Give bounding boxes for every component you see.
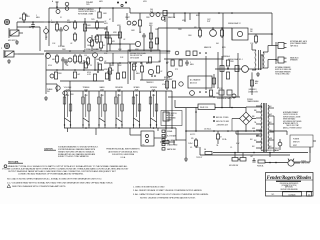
svg-text:.02: .02 (123, 39, 125, 41)
label smudges 5 (158, 61, 166, 86)
tube V12 (210, 30, 217, 37)
tube V11 (190, 91, 207, 96)
test data line2 (7, 178, 102, 181)
wire v x113b (112, 53, 114, 66)
vibrato box (188, 76, 212, 88)
svg-text:7025: 7025 (91, 19, 95, 21)
top dark marks (117, 2, 127, 7)
svg-text:2. ALL RESISTORS ARE 1/2 WATT: 2. ALL RESISTORS ARE 1/2 WATT UNLESS OTH… (133, 189, 202, 192)
title rev box (307, 192, 312, 197)
mid extra wires (83, 60, 109, 81)
small box mrB (209, 90, 212, 96)
wire x186 up (185, 108, 187, 131)
label 240 (150, 9, 153, 13)
svg-text:7025: 7025 (86, 4, 90, 6)
label test data (8, 161, 23, 164)
test data paragraph (2, 165, 129, 176)
wire mr h y97 (168, 96, 240, 98)
svg-text:1: 1 (36, 15, 37, 17)
svg-text:RED-YEL TO RED: RED-YEL TO RED (216, 117, 229, 119)
svg-text:470: 470 (191, 138, 194, 140)
notes list (133, 187, 209, 200)
resistor R1 (22, 12, 30, 22)
svg-text:.02: .02 (70, 43, 72, 45)
svg-text:BLK: BLK (269, 146, 272, 148)
node marker B2 (4, 43, 9, 48)
pull boost box (128, 50, 160, 62)
wire v x127 (126, 13, 128, 20)
svg-text:NOTES: UNLESS OTHERWISE SPECIF: NOTES: UNLESS OTHERWISE SPECIFIED ABOVE … (140, 196, 196, 199)
svg-text:+ DENOTES 115V: + DENOTES 115V (216, 125, 228, 127)
test data line4 (7, 184, 66, 188)
row y60 comps (166, 60, 194, 66)
svg-text:6C10: 6C10 (118, 49, 122, 51)
label smudges 6 (178, 29, 253, 45)
svg-text:NORMAL CHANNEL: NORMAL CHANNEL (84, 48, 100, 51)
resistor R22 (78, 54, 85, 65)
svg-text:1500: 1500 (87, 45, 91, 47)
svg-text:BLK: BLK (196, 147, 199, 149)
svg-text:REVERB: REVERB (115, 87, 123, 89)
svg-text:YEL: YEL (216, 145, 219, 147)
label surge1 (223, 55, 230, 58)
resistor R20 (52, 54, 59, 64)
svg-text:RED: RED (254, 110, 257, 112)
svg-text:EXPORT MODELS. MOVE: EXPORT MODELS. MOVE (283, 116, 300, 118)
small box 150 (148, 57, 151, 63)
wire v x107 (106, 26, 108, 50)
svg-text:CONNECTION: CONNECTION (248, 91, 258, 93)
svg-text:250K: 250K (100, 95, 103, 97)
wire pots bottom bus (64, 128, 186, 140)
svg-text:FOOT SWITCH: FOOT SWITCH (166, 113, 176, 115)
svg-text:TREBLE: TREBLE (83, 87, 91, 89)
small box 158b (156, 66, 159, 73)
svg-text:25: 25 (90, 65, 92, 67)
potentiometer VOLUME (63, 87, 72, 128)
resistor R9 (91, 19, 99, 44)
label 2vac (188, 142, 278, 159)
label surge relay 2 (228, 22, 241, 25)
label 470k y65 (118, 65, 137, 68)
svg-text:250K: 250K (84, 95, 87, 97)
power transformer T1 (261, 103, 269, 152)
svg-text:CIRCUIT FOR USE IN: CIRCUIT FOR USE IN (283, 114, 297, 116)
label surge relay 1 (228, 58, 243, 61)
label footswitch (166, 113, 177, 122)
label smudges 3 (62, 49, 140, 51)
svg-text:017605: 017605 (289, 194, 297, 196)
label 60cyc (190, 134, 196, 136)
top labels smudge (60, 1, 148, 19)
svg-text:GRN-YEL TO GRN: GRN-YEL TO GRN (216, 121, 229, 123)
wire into pots (46, 81, 70, 94)
resistor R5 (98, 8, 108, 18)
speaker jack J4 (268, 57, 287, 68)
svg-text:W/ NORMAL CHAN: W/ NORMAL CHAN (78, 12, 94, 15)
potentiometer REVERB (115, 87, 124, 128)
svg-text:BLK: BLK (269, 106, 272, 108)
wire mr h y59 (164, 58, 222, 60)
svg-text:47: 47 (109, 19, 111, 21)
rail junctions (56, 7, 233, 14)
tube V8A (56, 86, 60, 90)
resistor R60 (191, 138, 198, 148)
svg-text:GROUND SW: GROUND SW (229, 165, 239, 167)
alternate primary note (283, 111, 302, 129)
svg-text:PT2: PT2 (175, 69, 178, 71)
wire x196 drop (195, 108, 197, 132)
resistor R24 (54, 72, 62, 79)
label ext speaker (290, 40, 308, 47)
svg-text:1500: 1500 (188, 35, 192, 37)
label ac line (301, 160, 311, 165)
ground left (44, 96, 48, 100)
wire jack1 grid (17, 21, 44, 30)
test tick (52, 0, 59, 8)
svg-text:CONNECTED AND READINGS OF POWE: CONNECTED AND READINGS OF POWER AVAILABL… (18, 173, 84, 176)
pi area labels (168, 13, 200, 22)
wire left vert x46 (46, 53, 57, 84)
resistor R41 (220, 28, 223, 38)
resistor R7 (70, 20, 77, 45)
test data line3 (7, 182, 113, 185)
legend symbols (162, 130, 178, 151)
xfmr wire labels right (269, 106, 272, 148)
xfmr taps left (256, 106, 262, 148)
power switch box (290, 135, 313, 147)
mr fill (212, 74, 230, 108)
wire v x128 pair (128, 62, 131, 84)
wire lower mid (160, 140, 175, 145)
speaker note small (248, 88, 258, 93)
fender address block (106, 147, 140, 159)
title model (281, 184, 298, 191)
svg-text:FULLERTON, CALIFORNIA: FULLERTON, CALIFORNIA (112, 153, 135, 156)
label col stack2 (104, 53, 109, 71)
svg-text:PILOT: PILOT (275, 148, 279, 150)
wire grid2 (17, 26, 40, 28)
test circles pair A (127, 21, 136, 25)
cap pair C11 (64, 59, 68, 65)
wire pots right vert (166, 91, 172, 110)
footswitch box (141, 131, 154, 147)
wire power lower rail (184, 147, 308, 161)
wire h y63 (104, 62, 128, 64)
label caution (44, 148, 56, 151)
svg-text:V1: V1 (60, 17, 62, 19)
svg-text:.02: .02 (160, 71, 162, 73)
svg-text:1: 1 (136, 71, 137, 73)
mid fill B (108, 63, 119, 81)
svg-text:470K: 470K (118, 65, 122, 67)
resistor R25 (73, 72, 80, 78)
wire v x95 (94, 57, 96, 70)
small box x165 (163, 11, 167, 23)
junction dots preamp (48, 21, 98, 23)
svg-text:VOLUME: VOLUME (64, 87, 72, 89)
relay K1 (215, 54, 263, 72)
svg-text:6C10: 6C10 (87, 72, 91, 74)
potentiometer BASS (98, 86, 107, 128)
row y53 comps (167, 51, 207, 56)
svg-text:3. ALL CAPACITORS AT LEAST 400: 3. ALL CAPACITORS AT LEAST 400 VOLT UNLE… (133, 193, 209, 196)
potentiometer INTENS (149, 87, 158, 128)
mid labels 2 (47, 88, 75, 96)
wire mr vert x238 (237, 53, 239, 97)
title divider2 (266, 190, 314, 192)
small box 106b (105, 73, 108, 79)
svg-text:BLK: BLK (252, 146, 255, 148)
wire top rail 2 (130, 8, 272, 13)
tube V9A (148, 69, 153, 74)
tube V5B (68, 58, 72, 62)
circle small x52 (50, 74, 54, 78)
resistor R23 (84, 55, 90, 66)
psu mid labels (196, 138, 240, 149)
svg-text:BASS: BASS (100, 86, 106, 89)
label smudges out (204, 46, 226, 49)
svg-text:BLK: BLK (254, 140, 257, 142)
fender script logo (267, 176, 312, 181)
label main speaker (290, 57, 299, 62)
title cbs line (280, 182, 299, 185)
svg-text:SWITCH: SWITCH (293, 142, 300, 144)
wire channel bus pair (44, 51, 170, 53)
wire power bottom long (186, 130, 252, 132)
wire psw (270, 116, 316, 153)
svg-text:TO PILOT: TO PILOT (196, 157, 202, 159)
wire h y22 far (49, 21, 104, 23)
svg-text:250K: 250K (135, 95, 138, 97)
preamp fill A labels (94, 37, 116, 47)
resistor R26 (93, 74, 96, 81)
title block frame (266, 173, 314, 197)
label normal channel (58, 46, 122, 51)
junction dots psu (185, 130, 271, 153)
wire foot (130, 121, 166, 138)
svg-text:.02: .02 (104, 21, 106, 23)
svg-text:.02: .02 (110, 65, 112, 67)
rail circles pair B (150, 13, 165, 21)
wire vert x218 (217, 52, 219, 88)
tube V3 (130, 41, 141, 51)
test circles pair (65, 2, 69, 10)
wire x238 down (237, 130, 239, 153)
svg-text:VOLUME: VOLUME (58, 46, 65, 48)
junction row y63 (129, 62, 148, 64)
tube pin circle (56, 10, 60, 14)
note speaker (275, 66, 291, 76)
tube V2 (87, 38, 92, 47)
svg-text:0.1: 0.1 (76, 61, 78, 63)
wire vert x223 (222, 13, 224, 60)
svg-text:DENOTES CHANGES WITH CONVENTIO: DENOTES CHANGES WITH CONVENTIONAL AMP UN… (12, 185, 66, 188)
resistor mrA (165, 81, 175, 88)
wire bridge connect (232, 107, 262, 134)
svg-text:BLU: BLU (269, 122, 272, 124)
mid fill C (132, 62, 143, 80)
label 68k (19, 18, 23, 20)
svg-text:1: 1 (190, 62, 191, 64)
ground switch (229, 153, 246, 168)
rail drops (184, 12, 200, 28)
right col comps (226, 60, 234, 79)
tube V1A (44, 26, 49, 40)
relay note cluster (217, 88, 236, 100)
input jack J2 (1, 48, 18, 63)
small box 157 (155, 38, 158, 44)
svg-text:SUBJECT TO A 20% TOTAL VARIATI: SUBJECT TO A 20% TOTAL VARIATION. (58, 155, 89, 158)
svg-text:ON VOLUME: ON VOLUME (130, 57, 139, 59)
svg-text:WHT: WHT (269, 114, 272, 116)
bus y51 double (96, 52, 170, 54)
wire mid h y70 (46, 69, 104, 71)
labels smudge top (132, 25, 160, 34)
wire h y22 ext (44, 21, 49, 23)
label vibrato interconnect (78, 8, 96, 15)
wire jack2 riser (18, 27, 44, 54)
svg-text:U.S.A.: U.S.A. (121, 156, 126, 159)
svg-text:MUST BE 8 OHMS USE: MUST BE 8 OHMS USE (275, 69, 291, 71)
wire b+ rail y107 (175, 100, 246, 108)
tube V6 (93, 53, 103, 61)
svg-text:DPST: DPST (293, 145, 297, 147)
svg-text:RED: RED (252, 116, 255, 118)
svg-text:GRN: GRN (252, 128, 255, 130)
svg-text:YEL: YEL (254, 122, 257, 124)
tube V10B (179, 82, 183, 86)
svg-text:NO LOAD IS NOTED WHEN TRANSIST: NO LOAD IS NOTED WHEN TRANSISTOR A.C. SI… (7, 178, 102, 181)
wire vert x167 (166, 10, 168, 90)
xfmr taps right (268, 108, 274, 148)
pots right verticals ext (165, 108, 173, 129)
wire relay down (250, 70, 253, 95)
resistor R40 (194, 27, 202, 38)
svg-text:.02: .02 (117, 73, 119, 75)
small box 106 (105, 32, 108, 38)
svg-text:0.1: 0.1 (103, 45, 105, 47)
svg-text:POWER: POWER (247, 99, 254, 101)
output transformer T2 (252, 44, 268, 70)
tube V1B (64, 26, 69, 31)
top fill x140 (138, 13, 141, 33)
speaker jack J3 (268, 42, 287, 64)
pilot lamp (275, 139, 282, 152)
mid extra comps (84, 59, 112, 75)
preamp h segs (85, 27, 130, 45)
label preamp (86, 1, 93, 6)
resistor R42 (250, 34, 258, 45)
resistor R8 (83, 24, 91, 31)
wire pots top bus (64, 90, 172, 92)
svg-text:6C10: 6C10 (48, 65, 52, 67)
input jack J1 (8, 28, 23, 44)
svg-text:.047: .047 (77, 74, 80, 76)
legend wire colors (213, 116, 229, 126)
label reverb block (164, 77, 172, 81)
surge relay box (232, 28, 248, 40)
resistor R21 (73, 54, 78, 64)
capacitor C5 (142, 33, 146, 51)
title divider1 (266, 180, 314, 181)
resistor R61 (204, 148, 212, 155)
svg-text:LINE CORD: LINE CORD (301, 163, 311, 165)
wire v x151 (149, 26, 152, 50)
wire legend link (231, 119, 233, 132)
psu area labels (216, 135, 259, 149)
label smudges 1 (25, 15, 56, 45)
psu small comps (216, 131, 221, 144)
wire v x120 (118, 26, 121, 51)
svg-text:PULL BOOST SW: PULL BOOST SW (130, 55, 143, 57)
relay coil box (198, 104, 215, 110)
svg-text:INTENS: INTENS (150, 87, 157, 89)
svg-text:(A DIVISION OF CBS MUSICAL INS: (A DIVISION OF CBS MUSICAL INST.) (108, 150, 138, 153)
svg-text:SUPER TWIN REVERB: SUPER TWIN REVERB (281, 189, 298, 191)
svg-text:1000: 1000 (149, 23, 153, 25)
svg-text:FS: FS (143, 145, 145, 147)
xfmr wire labels left (252, 110, 257, 148)
wire PI feed y28 (158, 28, 232, 50)
svg-text:POWER: POWER (293, 139, 300, 141)
small box reverb out (163, 112, 169, 121)
svg-text:BLK: BLK (250, 139, 253, 141)
label 6C10 (87, 72, 91, 76)
node marker B1 (4, 19, 9, 24)
svg-text:250K: 250K (152, 95, 155, 97)
footswitch text box (161, 111, 182, 126)
label smudges 2 (109, 16, 151, 27)
dots 152 (151, 75, 156, 77)
wire h y80 (140, 79, 164, 81)
wire mid h y81 (60, 80, 104, 82)
wire right drop (271, 13, 273, 44)
trans bottom stubs (253, 130, 262, 142)
svg-text:60 CYC: 60 CYC (190, 134, 196, 136)
labels mid vals (113, 30, 136, 41)
wire x222 ext (221, 100, 223, 108)
svg-text:250K: 250K (66, 95, 69, 97)
tube V5A (46, 54, 51, 59)
bus dots (56, 50, 154, 129)
svg-text:D.C. VOLTAGES READ WITH NO SIG: D.C. VOLTAGES READ WITH NO SIGNAL INPUT … (7, 182, 113, 185)
label power transformer (247, 99, 260, 103)
tube V10 (167, 69, 178, 77)
capacitor C10 (61, 57, 65, 70)
resistor R6 (51, 20, 59, 32)
potentiometer SPEED (132, 87, 141, 128)
svg-text:47: 47 (220, 137, 222, 139)
svg-text:250: 250 (250, 29, 253, 31)
label col stack (104, 21, 109, 39)
title number box (272, 192, 302, 197)
capacitor C2 (59, 27, 63, 46)
wire power bottom vertical (185, 131, 187, 158)
wire v x85 (84, 18, 86, 48)
svg-text:TREMOLO: TREMOLO (146, 82, 154, 84)
svg-text:SPEED: SPEED (133, 87, 140, 89)
caution paragraph (58, 146, 99, 159)
wire left drop x49 (48, 8, 50, 46)
ground xfmr (256, 72, 260, 76)
label 115vac (204, 128, 212, 131)
svg-text:1. USED IN SOME MODELS ONLY.: 1. USED IN SOME MODELS ONLY. (133, 187, 165, 189)
AC plug P1 (288, 159, 300, 166)
label output (207, 19, 211, 23)
label col1 (67, 20, 71, 24)
label bias (255, 80, 258, 85)
